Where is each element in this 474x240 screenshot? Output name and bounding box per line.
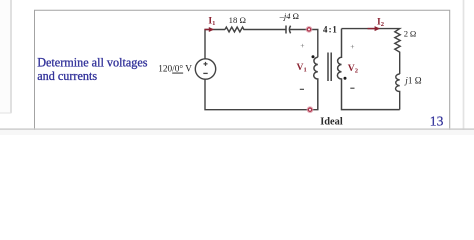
svg-text:Determine all voltages: Determine all voltages [37,56,148,70]
svg-text:+: + [350,42,354,51]
svg-text:Ideal: Ideal [320,117,343,128]
svg-text:–j4 Ω: –j4 Ω [279,11,299,21]
svg-text:18 Ω: 18 Ω [229,15,246,25]
svg-text:and currents: and currents [37,69,97,83]
svg-text:j1 Ω: j1 Ω [404,76,421,86]
svg-text:+: + [300,41,304,50]
svg-text:4:1: 4:1 [323,24,337,34]
svg-text:13: 13 [430,114,444,129]
svg-text:2 Ω: 2 Ω [404,29,416,39]
svg-text:120/0° V: 120/0° V [158,64,192,75]
